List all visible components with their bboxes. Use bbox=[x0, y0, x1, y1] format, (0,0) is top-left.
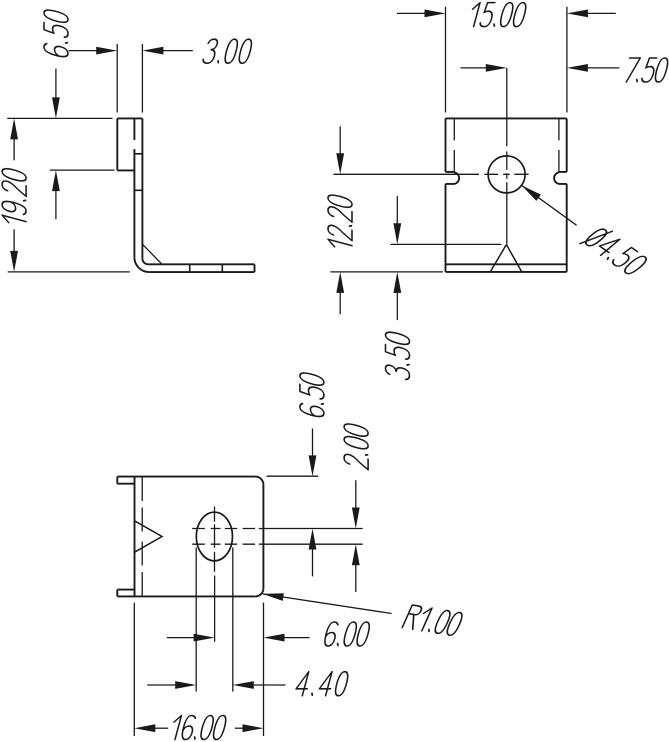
side view: leg right edge bbox=[141, 118, 143, 258]
dim 6.50 side: down arrowhead bbox=[52, 97, 60, 118]
bottom view: tab hidden line upper bbox=[192, 528, 363, 530]
dim D4.50: text bbox=[580, 224, 651, 277]
dim D4.50: leader line bbox=[522, 185, 577, 225]
front view: hidden line left bbox=[453, 119, 455, 172]
dim 6.50 side: lower shaft bbox=[55, 186, 57, 219]
dim 3.50: text bbox=[386, 330, 410, 380]
side view: bend diagonal bbox=[143, 245, 161, 264]
dim 3.00: left line bbox=[69, 50, 98, 52]
bottom view: bottom-right rounded corner bbox=[255, 588, 263, 596]
dim 7.50: arrowhead pointing left bbox=[567, 64, 588, 72]
dim 15.00: arrowhead pointing left bbox=[567, 10, 588, 18]
dim 3.00: arrowhead pointing left bbox=[142, 47, 163, 55]
front view: triangle mark bbox=[490, 245, 522, 273]
dim 12.20: upper shaft bbox=[339, 126, 341, 155]
side view: inner bend curve bbox=[142, 259, 148, 265]
dim 6.00: text bbox=[323, 622, 371, 646]
dim 3.50: up arrowhead bbox=[393, 272, 401, 293]
dim 3.50: extension line at bottom left bbox=[330, 271, 443, 273]
dim 6.50 side: extension line at tab bottom bbox=[50, 169, 115, 171]
dim 4.40: right line bbox=[252, 684, 286, 686]
dim 2.00: text bbox=[344, 422, 368, 470]
dim 15.00: right line bbox=[586, 12, 616, 14]
dim 3.50: upper shaft bbox=[396, 196, 398, 225]
bottom view: left edge bbox=[134, 477, 136, 597]
dim 7.50: arrowhead pointing right bbox=[486, 64, 507, 72]
dim 6.50 side: text bbox=[44, 8, 68, 58]
dim 6.50 bottom: lower shaft bbox=[312, 548, 314, 577]
side view: tab bottom edge bbox=[117, 169, 134, 171]
bottom view: triangle mark bbox=[135, 521, 163, 552]
bottom view: slot vertical center line bbox=[214, 507, 216, 572]
front view: top edge bbox=[446, 117, 567, 119]
bottom view: tab hidden line lower bbox=[192, 543, 363, 545]
dim 7.50: right line bbox=[586, 67, 619, 69]
dim 3.00: arrowhead pointing right bbox=[96, 47, 117, 55]
dim 16.00: arrowhead pointing right bbox=[243, 724, 264, 732]
side view: foot tick 1 bbox=[189, 264, 191, 272]
dim 6.50 bottom: up arrowhead bbox=[309, 529, 317, 550]
dim 16.00: arrowhead pointing left bbox=[134, 724, 155, 732]
dim 4.40: slot left extension line bbox=[195, 548, 197, 692]
dim 2.00: up arrowhead bbox=[352, 544, 360, 565]
dim D4.50: leader arrowhead bbox=[522, 185, 541, 201]
dim 15.00: extension line left bbox=[445, 7, 447, 113]
dim 12.20: lower shaft bbox=[339, 291, 341, 314]
dim 19.20: lower shaft bbox=[13, 230, 15, 257]
dim 6.00: arrowhead pointing right bbox=[194, 634, 215, 642]
side view: leg cross line 1 bbox=[134, 153, 142, 155]
front view: foot strip line bbox=[446, 263, 567, 265]
front view: right edge lower bbox=[566, 184, 568, 272]
dim 3.00: extension line right bbox=[141, 44, 143, 113]
front view: bottom edge bbox=[446, 271, 567, 273]
dim 3.00: extension line left bbox=[116, 44, 118, 113]
dim 3.00: text bbox=[202, 39, 253, 63]
side view: outer bend curve bbox=[134, 257, 149, 272]
dim 3.50: down arrowhead bbox=[393, 223, 401, 244]
front view: hole horizontal center line bbox=[333, 173, 528, 175]
dim 12.20: up arrowhead bbox=[336, 272, 344, 293]
front view: hole circle bbox=[488, 156, 525, 193]
side view: foot right end bbox=[254, 264, 256, 272]
bottom view: top edge bbox=[117, 476, 255, 478]
dim 19.20: up arrowhead bbox=[10, 118, 18, 139]
dim 6.50 side: upper shaft bbox=[55, 69, 57, 102]
dim R1.00: leader line bbox=[263, 594, 392, 614]
bottom view: top tab left end bbox=[116, 477, 118, 484]
dim 6.00: right line bbox=[283, 637, 310, 639]
bottom view: top-right rounded corner bbox=[255, 477, 263, 485]
dim 3.00: right line bbox=[162, 50, 193, 52]
dim 4.40: left line bbox=[147, 684, 176, 686]
dim 15.00: arrowhead pointing right bbox=[425, 10, 446, 18]
dim R1.00: text bbox=[402, 605, 464, 636]
dim 16.00: left line bbox=[153, 727, 168, 729]
side view: top edge bbox=[117, 117, 142, 119]
dim 12.20: down arrowhead bbox=[336, 153, 344, 174]
dim R1.00: leader arrowhead bbox=[263, 593, 284, 601]
dim 6.50 bottom: extension line at top edge bbox=[267, 475, 319, 477]
side view: tab-leg boundary upper bbox=[133, 118, 135, 139]
dim 4.40: arrowhead pointing right bbox=[175, 681, 196, 689]
dim 4.40: text bbox=[294, 672, 349, 696]
dim 19.20: down arrowhead bbox=[10, 251, 18, 272]
dim 4.40: arrowhead pointing left bbox=[233, 681, 254, 689]
dim 4.40: slot right extension line bbox=[232, 548, 234, 692]
side view: foot tick 2 bbox=[221, 264, 223, 272]
dim 3.50: extension line at triangle apex bbox=[391, 243, 502, 245]
front view: right edge upper bbox=[566, 118, 568, 171]
dim 2.00: upper shaft bbox=[355, 480, 357, 509]
dim 19.20: top extension line bbox=[7, 117, 112, 119]
dim 6.50 bottom: text bbox=[300, 371, 324, 418]
dim 15.00: text bbox=[468, 3, 528, 27]
dim 16.00: right extension line bbox=[263, 603, 265, 736]
front view: left notch bbox=[446, 172, 460, 184]
dim 16.00: right line bbox=[235, 727, 245, 729]
side view: foot top edge bbox=[148, 263, 254, 265]
dim 6.00: arrowhead pointing left bbox=[264, 634, 285, 642]
side view: tab left edge bbox=[116, 118, 118, 170]
dim 6.50 bottom: down arrowhead bbox=[309, 455, 317, 476]
dim 2.00: down arrowhead bbox=[352, 508, 360, 529]
dim 19.20: text bbox=[2, 167, 26, 228]
side view: leg left edge bbox=[133, 149, 135, 257]
bottom view: bottom tab left end bbox=[116, 590, 118, 597]
dim 7.50: left line bbox=[460, 67, 487, 69]
front view: hidden line right bbox=[558, 119, 560, 172]
dim 6.50 side: up arrowhead bbox=[52, 170, 60, 191]
bottom view: slot ellipse bbox=[196, 512, 232, 561]
dim 19.20: upper shaft bbox=[13, 134, 15, 160]
dim 12.20: text bbox=[328, 193, 352, 251]
front view: left edge lower bbox=[445, 184, 447, 272]
dim 2.00: lower shaft bbox=[355, 563, 357, 592]
side view: leg cross line 2 bbox=[134, 189, 142, 191]
dim 16.00: left extension line bbox=[133, 603, 135, 736]
dim 19.20: bottom extension line bbox=[8, 271, 130, 273]
dim 7.50: text bbox=[623, 58, 669, 82]
front view: left edge upper bbox=[445, 118, 447, 171]
bottom view: bottom tab top edge bbox=[117, 589, 134, 591]
front view: hole vertical center line bbox=[506, 68, 508, 244]
bottom view: bend hidden line dashed bbox=[141, 477, 143, 596]
dim 6.50 bottom: upper shaft bbox=[312, 429, 314, 458]
dim 6.00: left line bbox=[167, 637, 195, 639]
dim 3.50: lower shaft bbox=[396, 291, 398, 320]
dim 16.00: text bbox=[169, 716, 227, 740]
bottom view: right edge bbox=[262, 485, 264, 589]
front view: right notch bbox=[554, 172, 567, 184]
dim 15.00: left line bbox=[397, 12, 426, 14]
dim 6.00: center extension below slot bbox=[214, 576, 216, 642]
bottom view: bottom edge bbox=[117, 595, 255, 597]
side view: foot bottom edge bbox=[149, 271, 254, 273]
bottom view: top tab bottom edge bbox=[117, 483, 134, 485]
dim 15.00: extension line right bbox=[566, 7, 568, 113]
